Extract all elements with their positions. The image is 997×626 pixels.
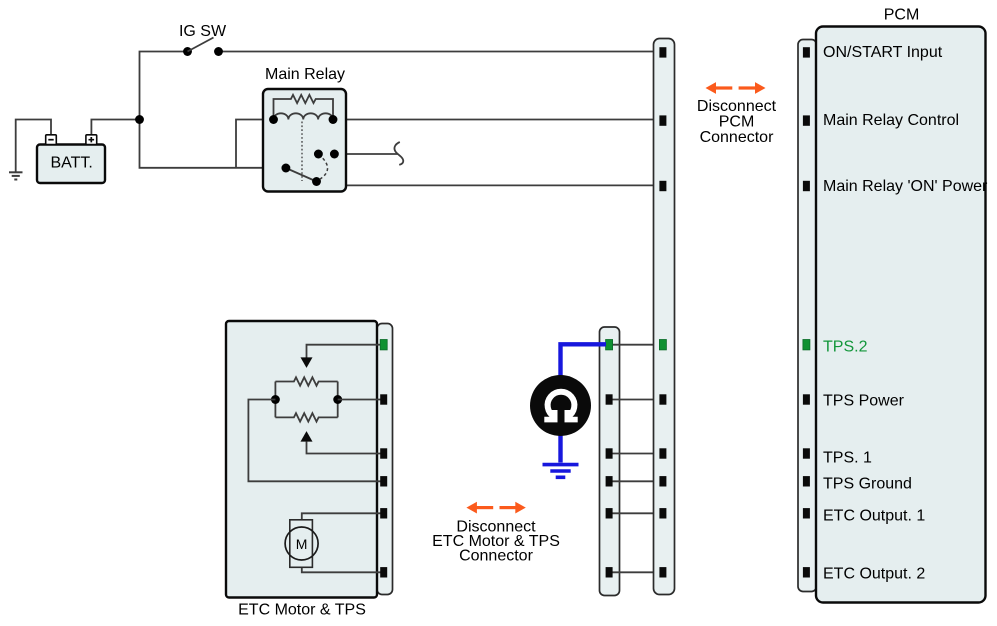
PCM harness pin P6 <box>659 448 666 458</box>
TPS resistor top <box>275 377 337 417</box>
relay armature divider dotted <box>301 122 303 182</box>
PCM pin C5 <box>803 394 810 404</box>
svg-text:Main Relay: Main Relay <box>265 66 345 83</box>
wire row TPS Ground between connectors <box>613 480 661 482</box>
battery positive terminal <box>86 135 97 145</box>
wire IG SW to connector pin 1 <box>219 51 661 53</box>
wire TPS wiper 1 to pin T3 <box>307 441 381 453</box>
ETC strip pin T1 green <box>380 340 387 350</box>
TPS resistor bottom <box>275 382 337 422</box>
PCM pin C8 <box>803 508 810 518</box>
disconnect arrow left PCM <box>706 82 733 94</box>
relay output node <box>330 150 339 159</box>
svg-text:TPS Power: TPS Power <box>823 393 905 410</box>
relay moving contact node <box>312 177 321 186</box>
squiggle open wire break <box>394 142 403 165</box>
PCM pin C1 <box>803 47 810 57</box>
wire node A up to ignition switch <box>140 52 188 120</box>
TPS wiper 2 arrow down <box>301 357 313 368</box>
wire row TPS.1 between connectors <box>613 453 661 455</box>
TPS left node <box>271 395 280 404</box>
harness connector strip PCM side <box>654 39 675 595</box>
svg-text:TPS Ground: TPS Ground <box>823 475 912 492</box>
ohmmeter lead bottom blue <box>558 425 562 463</box>
node A junction <box>135 115 144 124</box>
disconnect arrow left ETC <box>466 502 493 514</box>
PCM harness pin P3 <box>659 181 666 191</box>
PCM pin C7 <box>803 476 810 486</box>
PCM connector strip <box>798 40 817 592</box>
svg-text:Connector: Connector <box>700 129 774 146</box>
relay NO contact node <box>314 150 323 159</box>
harness pin H1 green <box>606 340 613 350</box>
svg-text:BATT.: BATT. <box>51 155 93 172</box>
relay coil <box>274 113 334 119</box>
svg-text:Connector: Connector <box>459 548 533 565</box>
TPS right node <box>333 395 342 404</box>
wire relay output to Main Relay ON Power pin <box>335 154 660 185</box>
relay box Main Relay <box>263 89 346 192</box>
ohmmeter <box>530 375 591 436</box>
wire relay coil right to connector pin 2 <box>333 119 660 121</box>
ETC connector strip on box <box>377 324 393 595</box>
ground <box>9 172 23 179</box>
wire node B up to relay coil left <box>236 120 274 168</box>
relay common node <box>281 164 290 173</box>
harness pin H5 <box>606 508 613 518</box>
svg-text:ON/START Input: ON/START Input <box>823 44 943 61</box>
PCM pin C9 <box>803 567 810 577</box>
relay throw arc dashed <box>320 157 328 180</box>
harness connector strip ETC side <box>600 327 620 596</box>
harness pin H6 <box>606 567 613 577</box>
PCM pin C2 <box>803 115 810 125</box>
svg-text:ETC Output. 2: ETC Output. 2 <box>823 566 925 583</box>
battery negative terminal <box>46 135 57 145</box>
svg-text:TPS.2: TPS.2 <box>823 338 868 355</box>
relay coil left node <box>269 115 278 124</box>
svg-text:TPS. 1: TPS. 1 <box>823 449 872 466</box>
wire row TPS.2 between connectors <box>613 344 661 346</box>
PCM harness pin P9 <box>659 567 666 577</box>
PCM harness pin P2 <box>659 115 666 125</box>
motor M <box>285 527 318 560</box>
disconnect arrow right PCM <box>739 82 766 94</box>
label Disconnect ETC Motor & TPS Connector <box>432 519 560 565</box>
ohmmeter lead top blue <box>561 344 607 385</box>
PCM harness pin P4 green <box>659 340 666 350</box>
PCM pin C6 <box>803 448 810 458</box>
PCM box <box>816 27 986 603</box>
relay resistor <box>274 95 334 120</box>
TPS wiper 1 arrow up <box>301 431 313 442</box>
svg-text:ETC Output. 1: ETC Output. 1 <box>823 507 925 524</box>
PCM harness pin P7 <box>659 476 666 486</box>
svg-text:IG SW: IG SW <box>179 23 227 40</box>
wire motor top to pin T5 <box>302 513 381 520</box>
ETC strip pin T4 <box>380 476 387 486</box>
motor armature frame <box>290 520 313 568</box>
ETC strip pin T6 <box>380 567 387 577</box>
PCM pin C4 green <box>803 340 810 350</box>
wire TPS left node to pin T4 <box>248 400 380 482</box>
wire row ETC Output 2 between connectors <box>613 571 661 573</box>
ETC strip pin T2 <box>380 394 387 404</box>
battery BATT. <box>37 145 105 184</box>
relay coil right node <box>329 115 338 124</box>
PCM harness pin P8 <box>659 508 666 518</box>
PCM harness pin P5 <box>659 394 666 404</box>
harness pin H2 <box>606 394 613 404</box>
wire TPS right node to pin T2 <box>338 399 381 401</box>
label Disconnect PCM Connector <box>697 98 777 146</box>
wire relay NO contact to open squiggle <box>318 153 397 155</box>
wire node A down to node B <box>140 120 237 168</box>
wire motor bottom to pin T6 <box>302 567 381 572</box>
wire battery positive to node A <box>91 120 139 136</box>
harness pin H3 <box>606 448 613 458</box>
PCM harness pin P1 <box>659 47 666 57</box>
ohmmeter ground blue <box>543 465 579 478</box>
wire row ETC Output 1 between connectors <box>613 512 661 514</box>
disconnect arrow right ETC <box>500 502 526 514</box>
svg-text:Main Relay 'ON' Power: Main Relay 'ON' Power <box>823 178 988 195</box>
wire TPS wiper 2 to pin T1 <box>307 345 381 358</box>
wire row TPS Power between connectors <box>613 399 661 401</box>
PCM pin C3 <box>803 181 810 191</box>
relay switch arm <box>286 168 317 182</box>
ETC strip pin T5 <box>380 508 387 518</box>
svg-text:Main Relay Control: Main Relay Control <box>823 112 959 129</box>
svg-text:ETC Motor & TPS: ETC Motor & TPS <box>238 602 366 619</box>
harness pin H4 <box>606 476 613 486</box>
wire node B to relay common contact <box>236 167 286 169</box>
svg-text:M: M <box>296 536 308 552</box>
ETC strip pin T3 <box>380 448 387 458</box>
wire battery negative to chassis ground <box>16 120 51 172</box>
svg-text:PCM: PCM <box>884 7 920 24</box>
ignition switch IG SW <box>183 38 223 56</box>
ETC Motor and TPS box <box>226 321 377 598</box>
